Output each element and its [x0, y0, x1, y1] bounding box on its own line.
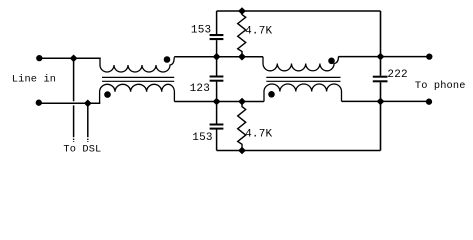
svg-text:153: 153 — [191, 24, 211, 36]
transformer T1 secondary (bottom) winding — [100, 84, 175, 103]
node: Line in top terminal — [36, 55, 42, 61]
wire: bottom rail left — [39, 102, 100, 104]
node: To phone top terminal — [426, 53, 432, 59]
node: To phone bottom terminal — [426, 99, 432, 105]
transformer T2 core — [266, 77, 340, 81]
T1 phase dot (top winding, right) — [164, 56, 171, 63]
wire: bottom output rail — [342, 100, 430, 102]
T1 phase dot (bottom winding, left) — [104, 91, 111, 98]
svg-text:153: 153 — [192, 132, 212, 144]
node: junction bottom rail / right bus — [238, 98, 246, 106]
node: Line in bottom terminal — [36, 100, 42, 106]
capacitor C4 222 plates — [373, 76, 388, 78]
wire: left bus vertical segments — [216, 11, 218, 151]
node: junction right bus / bottom output rail — [377, 98, 385, 106]
T2 phase dot (bottom winding, left) — [268, 91, 275, 98]
svg-text:To DSL: To DSL — [63, 144, 101, 156]
wire: top rail left — [39, 57, 100, 59]
svg-text:To phone: To phone — [415, 80, 466, 92]
node: junction top rail / DSL tap — [70, 55, 78, 63]
node: junction right bus / top output rail — [377, 53, 385, 61]
svg-text:4.7K: 4.7K — [245, 129, 272, 141]
T2 phase dot (top winding, right) — [328, 58, 335, 65]
transformer T1 primary (top) winding — [100, 57, 174, 72]
resistor R1 4.7K top — [238, 11, 246, 57]
capacitor C3 153 bottom plates — [210, 124, 224, 126]
wire: top output rail — [339, 56, 430, 58]
node: junction bottom rail / DSL tap — [84, 100, 92, 108]
transformer T2 primary (top) winding — [263, 56, 339, 70]
transformer T1 core — [102, 77, 174, 81]
wire: bottom rail T1 to T2 — [174, 101, 264, 103]
wire: top crossover wire — [217, 10, 381, 12]
resistor R2 4.7K bottom — [238, 102, 246, 151]
svg-text:123: 123 — [190, 83, 210, 95]
node: junction top wire / resistor R1 — [238, 7, 246, 15]
capacitor C2 123 plates — [210, 76, 224, 78]
transformer T2 secondary (bottom) winding — [264, 84, 342, 102]
node: junction bottom wire / resistor R2 — [238, 147, 246, 155]
wire: bottom crossover wire — [217, 150, 381, 152]
wire: DSL tap wire from top rail — [73, 58, 75, 137]
wire: right bus vertical with capacitor 222 — [380, 11, 382, 151]
svg-text:222: 222 — [387, 69, 407, 81]
capacitor C1 153 top plates — [210, 34, 224, 36]
svg-text:Line in: Line in — [12, 74, 56, 86]
wire: top rail T1 to T2 — [174, 56, 263, 58]
wire: DSL tap wire from bottom rail — [87, 103, 89, 137]
node: junction bottom rail / left bus — [213, 98, 221, 106]
node: junction top rail / right bus — [238, 53, 246, 61]
node: junction top rail / left bus — [213, 53, 221, 61]
svg-text:4.7K: 4.7K — [245, 26, 272, 38]
